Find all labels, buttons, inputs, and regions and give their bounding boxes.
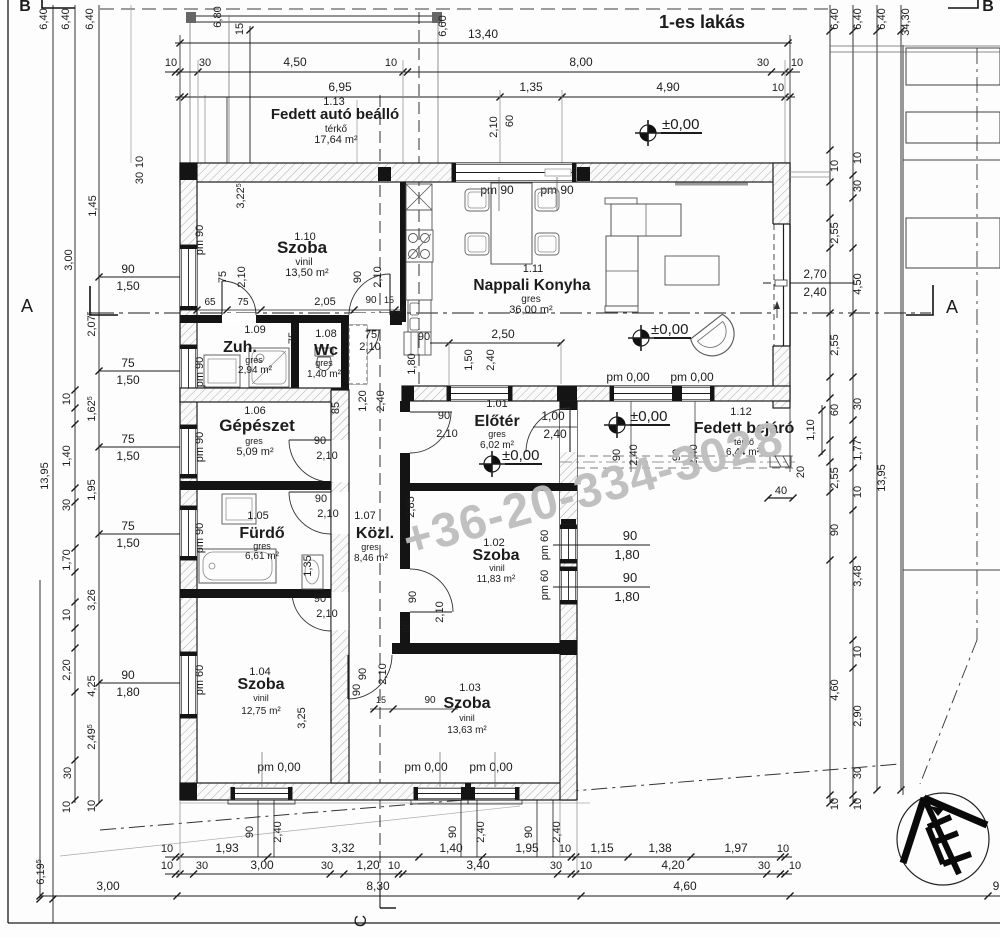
svg-text:8,30: 8,30 [366, 879, 390, 893]
svg-text:pm 90: pm 90 [194, 432, 206, 463]
svg-text:6,40: 6,40 [876, 8, 888, 29]
svg-text:4,50: 4,50 [283, 55, 307, 69]
svg-text:pm 90: pm 90 [480, 183, 514, 197]
svg-text:10: 10 [789, 860, 801, 872]
svg-text:1,95: 1,95 [515, 841, 539, 855]
svg-text:Szoba: Szoba [237, 676, 284, 693]
svg-text:2,55: 2,55 [829, 222, 841, 243]
svg-text:30: 30 [62, 767, 74, 779]
svg-text:1,50: 1,50 [116, 279, 140, 293]
svg-text:10: 10 [777, 843, 789, 855]
svg-text:10: 10 [852, 486, 864, 498]
svg-text:90: 90 [314, 593, 326, 605]
svg-text:1,50: 1,50 [116, 449, 140, 463]
svg-text:1,10: 1,10 [805, 419, 817, 440]
svg-text:90: 90 [351, 684, 363, 696]
svg-text:10: 10 [852, 646, 864, 658]
svg-text:90: 90 [623, 528, 637, 543]
svg-text:2,55: 2,55 [829, 467, 841, 488]
svg-text:1.09: 1.09 [244, 324, 265, 336]
svg-text:15: 15 [234, 23, 246, 35]
svg-text:20: 20 [795, 466, 807, 478]
svg-text:30: 30 [321, 860, 333, 872]
svg-text:90: 90 [121, 668, 135, 682]
svg-text:4,50: 4,50 [852, 273, 864, 294]
svg-text:6,40: 6,40 [84, 8, 96, 29]
svg-text:5,09 m²: 5,09 m² [236, 446, 274, 458]
svg-text:2,94 m²: 2,94 m² [238, 365, 273, 376]
svg-text:vinil: vinil [489, 563, 505, 573]
svg-text:34,30: 34,30 [900, 8, 912, 36]
svg-text:90: 90 [315, 493, 327, 505]
svg-text:pm 60: pm 60 [539, 530, 551, 561]
svg-text:2,40: 2,40 [485, 349, 497, 370]
svg-text:2,40: 2,40 [475, 821, 487, 842]
svg-text:10: 10 [385, 57, 397, 69]
svg-text:1,45: 1,45 [87, 195, 99, 216]
svg-text:2,05: 2,05 [314, 296, 335, 308]
svg-text:2,55: 2,55 [829, 334, 841, 355]
svg-text:1,80: 1,80 [406, 353, 418, 374]
svg-text:1,15: 1,15 [590, 841, 614, 855]
svg-text:30: 30 [852, 767, 864, 779]
svg-text:C: C [351, 915, 370, 927]
svg-text:3,00: 3,00 [96, 879, 120, 893]
svg-text:Szoba: Szoba [277, 238, 328, 257]
svg-text:10: 10 [161, 860, 173, 872]
svg-text:pm 0,00: pm 0,00 [257, 760, 301, 774]
svg-text:6,60: 6,60 [437, 15, 449, 36]
svg-text:pm 0,00: pm 0,00 [670, 370, 714, 384]
svg-text:3,26: 3,26 [86, 589, 98, 610]
svg-text:1,38: 1,38 [648, 841, 672, 855]
svg-text:60: 60 [504, 115, 516, 127]
svg-text:11,83 m²: 11,83 m² [477, 574, 516, 585]
svg-text:B: B [19, 0, 31, 15]
svg-text:2,40: 2,40 [375, 390, 387, 411]
svg-text:60: 60 [400, 621, 412, 633]
svg-text:1,35: 1,35 [302, 555, 314, 576]
svg-text:90: 90 [352, 271, 364, 283]
svg-text:85: 85 [330, 402, 342, 414]
svg-text:30: 30 [134, 172, 146, 184]
svg-text:13,95: 13,95 [39, 462, 51, 490]
svg-text:gres: gres [253, 541, 271, 551]
svg-text:±0,00: ±0,00 [630, 408, 667, 425]
svg-text:10: 10 [772, 82, 784, 94]
svg-text:30: 30 [196, 860, 208, 872]
svg-text:vinil: vinil [459, 713, 475, 723]
svg-text:30: 30 [758, 860, 770, 872]
svg-text:4,20: 4,20 [661, 858, 685, 872]
svg-text:90: 90 [121, 262, 135, 276]
svg-text:10: 10 [161, 843, 173, 855]
svg-text:2,10: 2,10 [377, 663, 389, 684]
svg-text:A: A [946, 297, 958, 317]
svg-text:1,00: 1,00 [541, 409, 565, 423]
svg-text:gres: gres [245, 436, 263, 446]
svg-text:90: 90 [407, 591, 419, 603]
svg-text:2,40: 2,40 [543, 427, 567, 441]
svg-text:Szoba: Szoba [443, 695, 490, 712]
svg-text:3,00: 3,00 [63, 249, 75, 270]
svg-text:1.07: 1.07 [354, 510, 375, 522]
svg-text:1,70: 1,70 [61, 549, 73, 570]
svg-text:2,20: 2,20 [61, 659, 73, 680]
svg-text:6,61 m²: 6,61 m² [245, 551, 280, 562]
svg-text:75: 75 [121, 356, 135, 370]
svg-text:Előtér: Előtér [474, 413, 519, 430]
svg-text:Fürdő: Fürdő [239, 525, 285, 542]
svg-text:90: 90 [418, 331, 430, 343]
svg-text:30: 30 [757, 57, 769, 69]
svg-text:pm 0,00: pm 0,00 [404, 760, 448, 774]
svg-text:4,90: 4,90 [656, 80, 680, 94]
svg-text:2,10: 2,10 [488, 116, 500, 137]
svg-text:10: 10 [134, 156, 146, 168]
svg-text:1,35: 1,35 [519, 80, 543, 94]
svg-text:6,40: 6,40 [829, 8, 841, 29]
svg-text:pm 0,00: pm 0,00 [469, 760, 513, 774]
svg-text:pm 90: pm 90 [194, 357, 206, 388]
svg-text:1.12: 1.12 [730, 406, 751, 418]
svg-text:3,25: 3,25 [296, 707, 308, 728]
svg-text:4,60: 4,60 [829, 679, 841, 700]
svg-text:B: B [982, 0, 994, 15]
svg-text:10: 10 [61, 609, 73, 621]
svg-text:2,40: 2,40 [272, 821, 284, 842]
svg-text:6,40: 6,40 [852, 8, 864, 29]
svg-text:2,90: 2,90 [852, 705, 864, 726]
svg-text:8,00: 8,00 [569, 55, 593, 69]
svg-text:65: 65 [204, 297, 216, 308]
svg-text:1,40: 1,40 [439, 841, 463, 855]
svg-text:9: 9 [993, 879, 1000, 893]
svg-text:Gépészet: Gépészet [219, 416, 295, 435]
svg-text:4,25: 4,25 [86, 675, 98, 696]
svg-text:Fedett autó beálló: Fedett autó beálló [271, 106, 399, 123]
svg-text:pm 0,00: pm 0,00 [606, 370, 650, 384]
svg-text:2,40: 2,40 [551, 821, 563, 842]
svg-text:90: 90 [244, 826, 256, 838]
svg-text:90: 90 [365, 295, 377, 306]
svg-text:1.05: 1.05 [247, 510, 268, 522]
svg-text:60: 60 [829, 404, 841, 416]
svg-text:pm 90: pm 90 [194, 523, 206, 554]
svg-text:1,50: 1,50 [116, 536, 140, 550]
svg-text:2,50: 2,50 [491, 327, 515, 341]
svg-text:75: 75 [121, 432, 135, 446]
svg-text:1,93: 1,93 [215, 841, 239, 855]
svg-text:10: 10 [580, 860, 592, 872]
svg-text:Nappali Konyha: Nappali Konyha [473, 277, 591, 294]
svg-text:1,80: 1,80 [614, 589, 639, 604]
svg-text:90: 90 [829, 524, 841, 536]
svg-text:Szoba: Szoba [472, 547, 519, 564]
svg-text:2,10: 2,10 [434, 601, 446, 622]
svg-text:75: 75 [121, 519, 135, 533]
svg-text:17,64 m²: 17,64 m² [314, 134, 358, 146]
svg-text:1,80: 1,80 [614, 547, 639, 562]
svg-text:±0,00: ±0,00 [651, 321, 688, 338]
svg-text:15: 15 [384, 295, 394, 305]
svg-text:vinil: vinil [253, 693, 269, 703]
svg-text:6,40: 6,40 [38, 8, 50, 29]
svg-text:±0,00: ±0,00 [502, 447, 539, 464]
svg-text:A: A [21, 296, 33, 316]
svg-text:±0,00: ±0,00 [662, 116, 699, 133]
svg-text:30: 30 [199, 57, 211, 69]
svg-text:30: 30 [550, 860, 562, 872]
svg-text:6,95: 6,95 [328, 80, 352, 94]
svg-text:2,10: 2,10 [236, 266, 248, 287]
svg-text:90: 90 [623, 570, 637, 585]
svg-text:1,50: 1,50 [116, 373, 140, 387]
svg-text:1-es lakás: 1-es lakás [659, 12, 745, 32]
svg-text:90: 90 [447, 826, 459, 838]
svg-text:pm 60: pm 60 [539, 570, 551, 601]
svg-text:1.11: 1.11 [523, 263, 544, 275]
svg-text:3,32: 3,32 [331, 841, 355, 855]
svg-text:10: 10 [61, 801, 73, 813]
svg-text:gres: gres [315, 358, 333, 368]
svg-text:1,20: 1,20 [357, 390, 369, 411]
svg-text:1,80: 1,80 [116, 685, 140, 699]
svg-text:Wc: Wc [314, 342, 338, 359]
svg-text:75: 75 [237, 297, 249, 308]
svg-text:15: 15 [376, 695, 386, 705]
svg-text:pm 90: pm 90 [540, 183, 574, 197]
svg-text:Közl.: Közl. [356, 525, 394, 542]
svg-text:2,40: 2,40 [803, 285, 827, 299]
svg-text:4,60: 4,60 [673, 879, 697, 893]
svg-text:1,40: 1,40 [61, 445, 73, 466]
svg-text:1,40 m²: 1,40 m² [307, 369, 342, 380]
svg-text:pm 60: pm 60 [194, 665, 206, 696]
svg-text:75: 75 [365, 329, 377, 341]
svg-text:10: 10 [852, 798, 864, 810]
svg-text:90: 90 [438, 410, 450, 422]
svg-text:1.03: 1.03 [459, 682, 480, 694]
svg-text:Zuh.: Zuh. [223, 339, 257, 356]
svg-text:30: 30 [852, 398, 864, 410]
svg-text:2,10: 2,10 [316, 608, 337, 620]
svg-text:75: 75 [287, 332, 299, 344]
svg-text:10: 10 [61, 393, 73, 405]
svg-text:10: 10 [388, 860, 400, 872]
svg-text:3,40: 3,40 [466, 858, 490, 872]
svg-text:2,10: 2,10 [359, 341, 380, 353]
svg-text:2,70: 2,70 [803, 267, 827, 281]
svg-text:90: 90 [424, 695, 436, 706]
svg-text:1,50: 1,50 [463, 349, 475, 370]
svg-text:1,95: 1,95 [86, 479, 98, 500]
svg-text:13,95: 13,95 [876, 464, 888, 492]
svg-text:90: 90 [523, 826, 535, 838]
svg-text:30: 30 [852, 180, 864, 192]
svg-text:2,10: 2,10 [436, 428, 457, 440]
svg-text:8,46 m²: 8,46 m² [354, 553, 389, 564]
svg-text:13,63 m²: 13,63 m² [447, 725, 487, 736]
svg-text:pm 90: pm 90 [194, 225, 206, 256]
svg-text:gres: gres [245, 355, 263, 365]
svg-text:2,10: 2,10 [372, 266, 384, 287]
svg-text:gres: gres [488, 429, 506, 439]
svg-text:90: 90 [357, 668, 369, 680]
svg-text:1.08: 1.08 [315, 328, 336, 340]
svg-text:10: 10 [165, 57, 177, 69]
svg-text:10: 10 [852, 152, 864, 164]
svg-text:40: 40 [775, 485, 787, 497]
svg-text:gres: gres [361, 542, 379, 552]
svg-text:10: 10 [829, 798, 841, 810]
svg-text:10: 10 [829, 160, 841, 172]
svg-text:12,75 m²: 12,75 m² [241, 706, 281, 717]
svg-text:1,20: 1,20 [356, 858, 380, 872]
svg-text:3,00: 3,00 [250, 858, 274, 872]
svg-text:2,10: 2,10 [317, 508, 338, 520]
svg-text:90: 90 [314, 435, 326, 447]
svg-text:1,97: 1,97 [724, 841, 748, 855]
svg-text:1.01: 1.01 [486, 398, 507, 410]
svg-text:6,40: 6,40 [60, 8, 72, 29]
svg-text:6,80: 6,80 [212, 6, 224, 27]
svg-text:10: 10 [559, 843, 571, 855]
svg-text:2,10: 2,10 [316, 450, 337, 462]
svg-text:13,40: 13,40 [468, 27, 498, 41]
svg-text:13,50 m²: 13,50 m² [285, 267, 329, 279]
svg-text:3,48: 3,48 [852, 565, 864, 586]
svg-text:10: 10 [791, 57, 803, 69]
svg-text:1,77: 1,77 [852, 439, 864, 460]
svg-text:75: 75 [217, 271, 229, 283]
svg-text:36,00 m²: 36,00 m² [509, 304, 553, 316]
